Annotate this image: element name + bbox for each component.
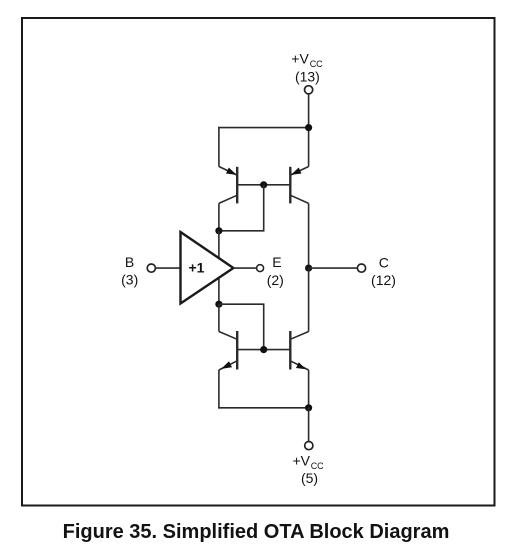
junction: top base tie [260, 181, 267, 188]
wire: E node down to Q3 collector [218, 304, 220, 331]
wire: B terminal to buffer input [155, 267, 180, 269]
junction: top rail / Q2 emitter [305, 124, 312, 131]
wire: E bottom tie right and down to lower base [219, 304, 264, 349]
wire: Q1 collector down to E node [218, 203, 220, 230]
wire: Q2 collector down to C node [308, 203, 310, 268]
transistor Q3 (bottom-left NPN, diode-connected) [219, 331, 237, 370]
junction: bottom rail / Q4 emitter [305, 404, 312, 411]
terminal circle B (pin 3) [147, 264, 155, 272]
svg-text:B: B [125, 254, 134, 270]
junction: E node top [215, 227, 222, 234]
buffer amplifier U1 (+1) [181, 232, 234, 304]
wire: C node to C terminal [309, 267, 358, 269]
wire: +Vcc(13) down to top rail junction and Q2 emitter drop [308, 94, 310, 167]
wire: Q3 emitter down to bottom rail [218, 370, 220, 409]
svg-text:+V: +V [293, 453, 311, 469]
svg-text:+V: +V [291, 51, 309, 67]
wire: Q1 emitter drop from rail [218, 127, 220, 167]
transistor Q2 (top-right PNP, mirror output) [290, 167, 308, 204]
svg-text:C: C [379, 255, 389, 271]
wire: buffer output to E terminal [233, 267, 256, 269]
terminal circle +Vcc bottom (pin 5) [305, 442, 313, 450]
transistor Q1 (top-left PNP, diode-connected) [219, 167, 237, 204]
wire: top supply rail [218, 127, 309, 129]
terminal circle +Vcc top (pin 13) [305, 86, 313, 94]
wire: bottom supply rail [218, 407, 309, 409]
junction: C node [305, 265, 312, 272]
wire: C node down to Q4 collector [308, 268, 310, 331]
svg-text:(3): (3) [121, 272, 138, 288]
svg-text:(13): (13) [295, 68, 320, 84]
terminal circle C (pin 12) [357, 264, 365, 272]
wire: Q3-Q4 base link [237, 349, 290, 351]
svg-text:(2): (2) [267, 272, 284, 288]
svg-text:(5): (5) [301, 470, 318, 486]
junction: E node bottom [215, 301, 222, 308]
junction: bottom base tie [260, 346, 267, 353]
wire: Q4 emitter down to bottom rail [308, 370, 310, 408]
svg-text:Figure 35. Simplified OTA Bloc: Figure 35. Simplified OTA Block Diagram [63, 521, 450, 543]
terminal circle E (pin 2) [257, 265, 264, 272]
wire: E node vertical (through buffer) [218, 231, 220, 304]
wire: bottom rail down to +Vcc(5) terminal [308, 408, 310, 442]
svg-text:+1: +1 [189, 260, 205, 276]
svg-text:E: E [272, 254, 281, 270]
wire: base tie down and left to E node [219, 185, 264, 231]
power label +Vcc (top) [291, 51, 323, 70]
wire: Q1-Q2 base link [237, 184, 290, 186]
transistor Q4 (bottom-right NPN, mirror output) [290, 331, 308, 370]
power label +Vcc (bottom) [293, 453, 325, 471]
svg-text:(12): (12) [371, 272, 396, 288]
